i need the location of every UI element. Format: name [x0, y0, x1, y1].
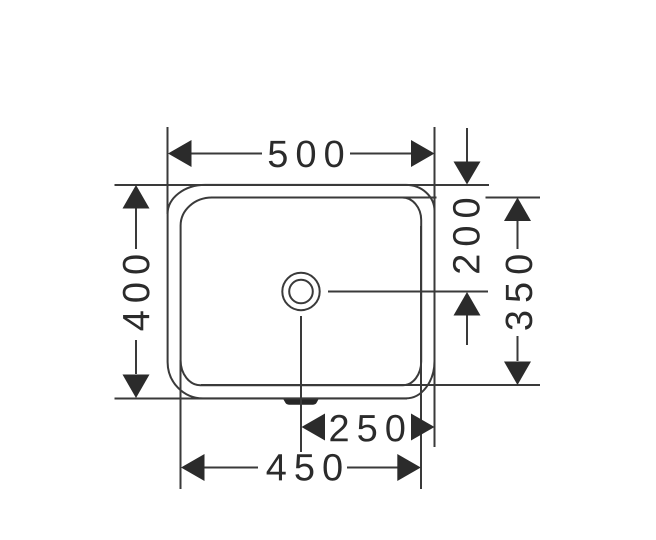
dimension 500 top [191, 153, 412, 155]
arrow 500 right [411, 140, 435, 167]
basin inner rim [181, 198, 422, 386]
extension line: outer left vertical x=167.5 (y 127 to 214) [167, 127, 169, 214]
extension line: inner left vertical x=180.5 (y 360 to 489) [180, 360, 182, 489]
centre line below drain x=301 [300, 316, 302, 452]
arrow 250 right [411, 414, 435, 441]
arrow 200 up (below drain line) [454, 292, 481, 316]
dim line 500 right segment [350, 153, 412, 155]
dim line 400 lower segment [135, 340, 137, 374]
label 350 [505, 255, 532, 330]
arrow 350 up [504, 198, 531, 222]
extension line: outer right vertical x=434.5 (y 127 to 447) [434, 127, 436, 447]
dimension 200 right [466, 128, 468, 345]
dim line 450 left segment [204, 467, 258, 469]
label 500 [269, 140, 343, 167]
dim line 200 upper tail [466, 128, 468, 162]
dim line 450 right segment [347, 467, 398, 469]
dimension 450 bottom [204, 467, 398, 469]
drain outer circle [282, 273, 319, 310]
arrow 200 down (above top line) [454, 162, 481, 185]
basin outer rim [168, 185, 435, 399]
extension line: drain centre to right y=291.5 [328, 291, 488, 293]
arrow 400 down [123, 375, 150, 399]
extension line: inner right vertical x=421 (y 226 to 489) [420, 226, 422, 489]
dimension 400 left [135, 208, 137, 374]
dim line 350 lower segment [517, 336, 519, 361]
arrow 400 up [123, 185, 150, 209]
extension line: inner bottom edge y=385 (x 201 to 540) [201, 384, 540, 386]
arrow 250 left [302, 414, 326, 441]
label 450 [267, 454, 342, 481]
arrow 350 down [504, 362, 531, 386]
dimension 350 right [517, 221, 519, 361]
dim line 200 lower tail [466, 315, 468, 345]
arrow 500 left [168, 140, 192, 167]
drain inner circle [289, 280, 313, 304]
extension line: inner top edge y=197.5 (x 211 to 436.5) [211, 197, 437, 199]
label 400 [123, 255, 150, 330]
overflow slot tab [283, 398, 319, 404]
extension line: top edge y=185 (x 114.5 to 489) [115, 184, 490, 186]
arrow 450 left [181, 454, 205, 481]
dim line 500 left segment [191, 153, 262, 155]
arrow 450 right [397, 454, 421, 481]
dim line 400 upper segment [135, 208, 137, 249]
label 250 [330, 415, 404, 442]
dim line 350 upper segment [517, 221, 519, 249]
extension line: outer bottom edge y=398.5 (x 114.5 to 407) [115, 398, 408, 400]
extension line: inner top edge right segment y=197.5 (x 485.5 to 540) [486, 197, 541, 199]
label 200 [453, 199, 480, 273]
